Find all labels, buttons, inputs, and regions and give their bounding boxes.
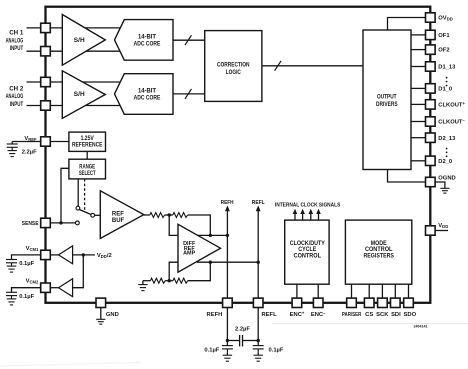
- svg-text:LOGIC: LOGIC: [226, 69, 242, 76]
- svg-text:BUF: BUF: [112, 218, 125, 224]
- svg-text:OVDD: OVDD: [438, 16, 452, 22]
- svg-text:CLKOUT+: CLKOUT+: [438, 101, 465, 108]
- svg-text:SELECT: SELECT: [79, 170, 96, 177]
- svg-text:D1_0: D1_0: [438, 87, 452, 93]
- svg-text:ANALOG: ANALOG: [6, 38, 24, 45]
- svg-text:CONTROL: CONTROL: [294, 253, 322, 260]
- svg-text:VREF: VREF: [24, 136, 37, 142]
- svg-text:REFH: REFH: [207, 312, 223, 318]
- svg-text:REGISTERS: REGISTERS: [364, 253, 394, 260]
- svg-text:14-BIT: 14-BIT: [138, 33, 156, 40]
- svg-text:SDI: SDI: [391, 312, 401, 318]
- svg-text:0.1µF: 0.1µF: [204, 348, 219, 354]
- svg-text:VCM1: VCM1: [26, 246, 39, 252]
- svg-text:INPUT: INPUT: [10, 101, 24, 108]
- svg-text:VCM2: VCM2: [26, 278, 39, 284]
- svg-text:CORRECTION: CORRECTION: [217, 62, 250, 69]
- svg-text:OUTPUT: OUTPUT: [377, 94, 397, 101]
- svg-text:OF2: OF2: [438, 48, 449, 54]
- svg-text:S/H: S/H: [74, 91, 85, 98]
- svg-text:2404141: 2404141: [414, 324, 428, 328]
- svg-text:CH 1: CH 1: [9, 30, 24, 37]
- svg-text:ADC CORE: ADC CORE: [134, 95, 161, 102]
- svg-text:SDO: SDO: [404, 312, 417, 318]
- svg-text:REFERENCE: REFERENCE: [72, 142, 103, 149]
- svg-text:REFH: REFH: [221, 200, 234, 206]
- svg-text:CH 2: CH 2: [9, 86, 24, 93]
- svg-text:S/H: S/H: [74, 37, 85, 44]
- svg-text:ENC−: ENC−: [311, 311, 326, 318]
- svg-text:OGND: OGND: [438, 176, 455, 182]
- svg-text:SCK: SCK: [376, 312, 389, 318]
- svg-text:GND: GND: [106, 312, 119, 318]
- svg-text:ADC CORE: ADC CORE: [134, 40, 161, 47]
- svg-text:OF1: OF1: [438, 33, 450, 39]
- svg-text:D2_0: D2_0: [438, 159, 452, 165]
- svg-text:0.1µF: 0.1µF: [19, 261, 34, 267]
- svg-text:ANALOG: ANALOG: [6, 93, 24, 100]
- svg-text:0.1µF: 0.1µF: [269, 348, 284, 354]
- svg-text:CS: CS: [365, 312, 373, 318]
- svg-text:ENC+: ENC+: [290, 311, 305, 318]
- svg-text:D2_13: D2_13: [438, 136, 456, 142]
- svg-text:2.2µF: 2.2µF: [235, 327, 250, 333]
- svg-text:2.2µF: 2.2µF: [22, 149, 37, 155]
- svg-text:PAR/SER: PAR/SER: [342, 312, 362, 318]
- svg-text:REFL: REFL: [262, 312, 278, 318]
- svg-text:CLKOUT−: CLKOUT−: [438, 118, 465, 125]
- svg-text:REFL: REFL: [252, 200, 265, 206]
- svg-text:0.1µF: 0.1µF: [19, 294, 34, 300]
- svg-text:DRIVERS: DRIVERS: [376, 101, 398, 108]
- svg-text:SENSE: SENSE: [22, 221, 39, 227]
- svg-text:AMP: AMP: [183, 251, 196, 257]
- svg-text:VDD: VDD: [438, 223, 448, 229]
- svg-text:REF: REF: [112, 212, 124, 218]
- svg-text:14-BIT: 14-BIT: [138, 87, 156, 94]
- svg-text:VDD/2: VDD/2: [97, 253, 112, 259]
- svg-text:D1_13: D1_13: [438, 65, 456, 71]
- svg-text:INPUT: INPUT: [10, 45, 24, 52]
- svg-text:INTERNAL CLOCK SIGNALS: INTERNAL CLOCK SIGNALS: [275, 203, 341, 209]
